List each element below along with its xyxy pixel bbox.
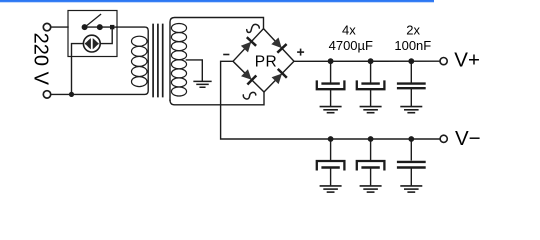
transformer T1 core xyxy=(153,25,163,97)
node C6 tap dot xyxy=(408,136,414,142)
wire J1 to switch box xyxy=(51,26,68,28)
terminal V- xyxy=(440,135,447,142)
capacitor C6 100nF xyxy=(398,139,424,185)
ground GND4 xyxy=(401,107,421,113)
ground GND2 xyxy=(320,107,340,113)
minus label at bridge xyxy=(224,54,229,56)
diode D3 (L to B edge) xyxy=(241,69,255,83)
svg-text:4x: 4x xyxy=(342,23,356,38)
wire secondary top to bridge AC1 xyxy=(170,18,264,101)
diode D1 (L to T edge) xyxy=(241,38,255,52)
node C2 tap dot xyxy=(368,58,374,64)
capacitor C2 4700uF xyxy=(357,61,385,106)
terminal J2 (220V bottom) xyxy=(43,91,50,98)
node A junction dot xyxy=(69,92,74,97)
ground GND3 xyxy=(360,107,380,113)
switch S1 lever xyxy=(87,14,100,25)
capacitor C5 4700uF xyxy=(357,139,385,185)
decorative top bar xyxy=(0,0,434,3)
transformer T1 primary winding loops xyxy=(132,36,148,86)
svg-text:220 V: 220 V xyxy=(30,33,52,86)
ground GND1 (center tap) xyxy=(194,81,211,87)
wire bridge minus to V- rail xyxy=(221,61,441,139)
svg-text:2x: 2x xyxy=(406,23,420,38)
bridge rectifier PR diamond xyxy=(233,29,294,92)
ground GND7 xyxy=(401,186,421,192)
svg-text:PR: PR xyxy=(255,54,278,71)
node C3 tap dot xyxy=(408,58,414,64)
node C1 tap dot xyxy=(328,58,334,64)
capacitor C4 4700uF xyxy=(317,139,345,185)
node C5 tap dot xyxy=(368,136,374,142)
transformer T1 secondary winding loops xyxy=(171,23,186,96)
AC squiggle bottom xyxy=(243,92,256,99)
transformer T1 primary wire outline xyxy=(72,27,149,94)
terminal J1 (220V top) xyxy=(43,23,50,30)
diode D4 (B to R edge) xyxy=(271,70,285,84)
AC squiggle top xyxy=(247,24,260,32)
node B junction dot xyxy=(110,25,114,29)
terminal V+ xyxy=(440,58,447,65)
svg-text:V−: V− xyxy=(455,127,481,150)
capacitor C3 100nF xyxy=(398,61,424,106)
capacitor C1 4700uF xyxy=(317,61,345,106)
wire bridge plus to V+ rail xyxy=(294,60,440,62)
svg-text:4700µF: 4700µF xyxy=(329,38,373,53)
wire node B down to lamp xyxy=(100,27,112,43)
wire secondary bottom to bridge AC2 xyxy=(170,92,264,105)
switch S1 contact right xyxy=(98,25,103,30)
switch box xyxy=(68,11,117,57)
svg-text:100nF: 100nF xyxy=(394,38,431,53)
wire node B to transformer primary xyxy=(114,26,117,28)
neon lamp LA1 xyxy=(83,35,100,52)
ground GND5 xyxy=(320,186,340,192)
wire J2 to node A xyxy=(51,93,72,95)
plus label at bridge xyxy=(298,49,303,54)
wire lamp left to node A xyxy=(72,44,84,95)
wire switch to node B xyxy=(87,26,112,28)
diode D2 (T to R edge) xyxy=(271,37,285,51)
node C4 tap dot xyxy=(328,136,334,142)
ground GND6 xyxy=(360,186,380,192)
switch S1 contact left xyxy=(82,25,87,30)
svg-text:V+: V+ xyxy=(454,49,480,72)
wire center tap to ground xyxy=(186,60,202,81)
